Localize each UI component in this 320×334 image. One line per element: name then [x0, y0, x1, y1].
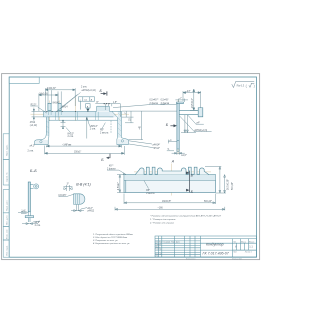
- svg-text:2 отв.: 2 отв.: [90, 129, 96, 131]
- svg-text:⊥: ⊥: [79, 98, 81, 101]
- svg-text:Лит.: Лит.: [233, 241, 237, 243]
- hidden hole lines under bar: [48, 111, 98, 121]
- vertical bar: [28, 182, 30, 212]
- svg-text:⌀4,2*: ⌀4,2*: [30, 145, 36, 148]
- small dim arrows on bar surface: [46, 111, 88, 112]
- right vertical dims: [205, 167, 226, 194]
- top tab 1: [48, 103, 51, 110]
- bottom dim rows of main view: [45, 145, 125, 155]
- svg-text:2. *Размер для справок: 2. *Размер для справок: [149, 221, 175, 224]
- leader 0.8x45: [58, 194, 73, 196]
- svg-text:И: И: [235, 245, 237, 248]
- svg-text:Т.контр.: Т.контр.: [155, 249, 162, 251]
- top-left designation stamp: [9, 77, 39, 83]
- svg-text:Взам. инв: Взам. инв: [6, 229, 8, 239]
- svg-text:2 отв.: 2 отв.: [68, 136, 74, 138]
- svg-text:3. Покрытие по тех. ук.: 3. Покрытие по тех. ук.: [93, 240, 118, 242]
- svg-text:~166: ~166: [158, 208, 164, 210]
- side arm: [179, 108, 203, 117]
- svg-text:⌀5,2*: ⌀5,2*: [87, 207, 93, 210]
- svg-text:R3*: R3*: [100, 130, 104, 132]
- svg-text:Подп. дата: Подп. дата: [6, 200, 8, 211]
- bottom dim row 160: [124, 194, 216, 205]
- svg-text:~146*мм: ~146*мм: [62, 144, 72, 146]
- svg-text:Формат А3: Формат А3: [232, 257, 242, 260]
- bottom dim row ~166: [115, 207, 225, 211]
- svg-text:0,5×45°*: 0,5×45°*: [150, 99, 159, 102]
- svg-text:⌀5H14*: ⌀5H14*: [90, 125, 98, 128]
- dim row y103.5 (6 / 1.5): [95, 104, 120, 117]
- rivet head section: [74, 194, 85, 205]
- left tip dims: [30, 106, 47, 121]
- svg-text:Кондуктор: Кондуктор: [206, 243, 224, 247]
- right side vertical dims of main view: [122, 111, 177, 140]
- svg-text:150±1*: 150±1*: [74, 152, 81, 154]
- svg-text:2 фаски: 2 фаски: [107, 167, 116, 170]
- small dim 3: [63, 185, 72, 191]
- svg-text:2 фаски: 2 фаски: [161, 102, 170, 105]
- svg-text:~44±0,31*: ~44±0,31*: [46, 88, 57, 90]
- stem and dim: [71, 205, 87, 212]
- tan centerlines: [134, 164, 211, 196]
- wavy castellated profile: [135, 167, 209, 174]
- svg-text:2 места: 2 места: [146, 193, 155, 195]
- svg-text:2 отв.: 2 отв.: [81, 87, 87, 89]
- rotated dim 24.5 at x193.8: [190, 89, 198, 110]
- leader 2otv d4H12: [57, 93, 81, 112]
- svg-text:ГК 7.017.436-07: ГК 7.017.436-07: [203, 252, 230, 256]
- svg-text:): ): [254, 84, 255, 88]
- bar fill: [44, 112, 112, 117]
- svg-text:Копировал: Копировал: [186, 258, 195, 260]
- right mid leaders: [129, 141, 153, 148]
- svg-text:0,5×45°: 0,5×45°: [161, 99, 169, 102]
- foot: [25, 216, 33, 218]
- svg-text:Ra 6,3: Ra 6,3: [237, 84, 245, 88]
- svg-text:160±0,5*: 160±0,5*: [162, 201, 171, 203]
- svg-text:Инв. подп.: Инв. подп.: [6, 245, 8, 255]
- svg-text:~24*: ~24*: [186, 91, 191, 93]
- roughness symbol top-right: [232, 81, 254, 87]
- svg-text:8H12*: 8H12*: [68, 133, 74, 135]
- svg-text:Справ. №: Справ. №: [5, 172, 8, 182]
- top dim ~24: [183, 91, 201, 108]
- svg-text:R2,5*: R2,5*: [31, 105, 37, 107]
- right leader texts: [180, 115, 212, 132]
- svg-text:1. Полученный обжиг середины 9: 1. Полученный обжиг середины 900мм: [93, 233, 133, 236]
- tolerance feature frame: [79, 97, 95, 110]
- svg-text:45°*: 45°*: [109, 165, 113, 167]
- svg-text:⌀5H14(+0,3): ⌀5H14(+0,3): [194, 129, 207, 132]
- notes block right (under bottom view): [149, 214, 222, 224]
- svg-text:Масса: Масса: [241, 241, 246, 243]
- vertical dim x186 to 132.8: [181, 115, 196, 133]
- svg-text:5±0,24*: 5±0,24*: [232, 182, 234, 190]
- ring boss: [30, 184, 38, 189]
- sheet outer edge: [2, 74, 260, 260]
- leader R5 2 mesta inside plate: [144, 181, 149, 189]
- rivet circles in feet: [40, 140, 124, 143]
- svg-text:* Размеры обеспечиваются инстр: * Размеры обеспечиваются инструментом АТ…: [150, 214, 222, 217]
- svg-text:⌀1,6*: ⌀1,6*: [181, 154, 187, 157]
- svg-text:Инв. дубл: Инв. дубл: [6, 215, 8, 225]
- svg-text:2. Шаг борозд по ГОСТ 8850-2мм: 2. Шаг борозд по ГОСТ 8850-2мм: [92, 236, 128, 239]
- svg-text:⌀4H12(+0,12): ⌀4H12(+0,12): [82, 89, 96, 92]
- left margin rotated micro-text: [5, 144, 8, 255]
- svg-text:Утв.: Утв.: [155, 256, 159, 258]
- leader 0.5x45 2 faski right top: [113, 105, 165, 108]
- svg-text:24,5±0,2*: 24,5±0,2*: [192, 98, 194, 108]
- svg-text:1,5*: 1,5*: [113, 102, 117, 104]
- svg-text:Листов 1: Листов 1: [245, 252, 252, 254]
- svg-text:5±0,24*: 5±0,24*: [204, 201, 212, 203]
- left vertical dim 4: [117, 175, 124, 193]
- svg-text:(+0,12): (+0,12): [30, 125, 38, 127]
- svg-text:2 места: 2 места: [100, 132, 109, 134]
- tan centerline: [177, 100, 179, 155]
- left margin cells column: [3, 134, 9, 257]
- plate body: [124, 175, 216, 193]
- svg-text:Б–Б: Б–Б: [30, 169, 37, 173]
- tan centerlines main view: [31, 98, 130, 122]
- svg-text:2 отв.: 2 отв.: [28, 150, 34, 152]
- bottom dims: [18, 212, 40, 225]
- svg-text:5H14*: 5H14*: [153, 148, 159, 150]
- svg-text:8H14: 8H14: [62, 106, 68, 108]
- svg-text:Лист: Лист: [233, 252, 237, 254]
- svg-text:0,8×45°: 0,8×45°: [58, 194, 66, 197]
- inner leader texts: [61, 117, 112, 139]
- svg-text:6*: 6*: [96, 102, 98, 104]
- main bar body: [44, 106, 129, 145]
- svg-text:Масшт.: Масшт.: [249, 241, 255, 243]
- section cut line B-B: [189, 171, 191, 193]
- svg-text:3*: 3*: [67, 183, 69, 185]
- svg-text:В-В (4:1): В-В (4:1): [76, 183, 90, 187]
- svg-text:1,4*: 1,4*: [21, 210, 25, 212]
- left leg outline: [35, 117, 49, 145]
- svg-text:26,5±0,28*: 26,5±0,28*: [228, 179, 230, 190]
- svg-text:4H12: 4H12: [30, 122, 36, 124]
- svg-text:R5*: R5*: [146, 190, 150, 192]
- svg-text:⌀4*: ⌀4*: [196, 121, 200, 124]
- title block: [155, 236, 257, 257]
- datum flag A: [86, 104, 90, 112]
- svg-text:⌀4H14*: ⌀4H14*: [152, 144, 160, 147]
- svg-text:2 фаски: 2 фаски: [150, 102, 159, 105]
- leader 45 deg chamfer: [107, 170, 126, 175]
- notes block left (above title area): [92, 233, 133, 245]
- svg-text:Перв. прим.: Перв. прим.: [6, 144, 8, 156]
- leader 0.5x45 2 faski left: [160, 103, 177, 105]
- dim row1 top ~44: [39, 88, 75, 111]
- side view body: [177, 104, 179, 149]
- svg-text:1. *Размеры для справок: 1. *Размеры для справок: [150, 218, 176, 221]
- svg-text:8H14*: 8H14*: [53, 103, 59, 105]
- dim ~7: [175, 99, 188, 102]
- svg-text:⌀4H12: ⌀4H12: [87, 210, 95, 213]
- svg-text:1:1: 1:1: [249, 245, 253, 249]
- svg-text:4. Неуказанные пределы по тех.: 4. Неуказанные пределы по тех. ук.: [93, 242, 130, 245]
- top tab 2: [58, 103, 61, 110]
- svg-text:4,5min*: 4,5min*: [118, 182, 120, 190]
- svg-text:⌀2,9*: ⌀2,9*: [35, 221, 41, 224]
- svg-text:24±0,26: 24±0,26: [39, 93, 48, 95]
- bottom tip dims: [167, 140, 185, 155]
- drawing frame: [9, 77, 256, 257]
- svg-text:2 отв.: 2 отв.: [35, 225, 41, 227]
- svg-text:А: А: [171, 159, 175, 163]
